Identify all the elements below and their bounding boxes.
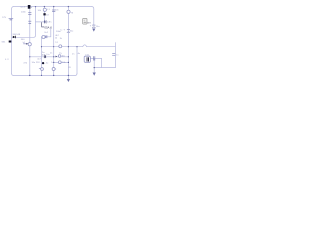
transistor circle C8 at (42,69): [41, 68, 44, 71]
base dash left of C8: [39, 67, 41, 69]
wire bottom rail: [14, 74, 76, 76]
svg-text:1N4148: 1N4148: [12, 34, 20, 36]
label leader line: [42, 22, 45, 27]
electrolytic cap on x=93.8 at y=26: [92, 25, 95, 28]
diode B8 on y=56.8: [56, 56, 58, 58]
dark blob B4 on x=44.4 at y=14.3: [43, 13, 45, 15]
svg-text:100n: 100n: [21, 11, 27, 13]
wire column x=101.6: [101, 59, 103, 68]
wire box output y=58.1: [90, 58, 101, 60]
transistor circle C6 at (61,56): [58, 55, 61, 58]
labels (faint): [2, 7, 119, 69]
capacitor on x=29.8 at y=13: [28, 13, 31, 15]
wire right rail upper: [93, 9, 95, 25]
svg-text:an: an: [87, 20, 91, 24]
junction dots bottom rail: [29, 75, 69, 76]
wire branch y=21.9: [36, 21, 45, 23]
speaker box LS1: [84, 56, 90, 62]
wire column x=29.8: [29, 7, 31, 76]
svg-text:12V: 12V: [2, 17, 6, 19]
svg-text:100n: 100n: [56, 31, 62, 33]
wire column x=35.5: [34, 7, 36, 38]
transistor circle C4 at (43.8,36.6) with cap: [42, 35, 45, 38]
wire top-left corner: [12, 7, 14, 9]
trimmer component on x=29.8 at y=22: [28, 21, 31, 24]
wire branch y=56.8: [30, 56, 69, 58]
battery B1 plates on left rail: [9, 19, 14, 20]
wire ground stub x=68.4: [67, 75, 69, 79]
transistor circle C3 at (30,43.6): [28, 43, 31, 46]
grey broken-image placeholder icon: [83, 18, 91, 24]
wire column x=50.8 stub: [50, 29, 52, 37]
wire long node y=46.7: [42, 46, 116, 48]
wire bottom-right corner up: [75, 74, 77, 76]
ground arrow at x=94.2 y=76.8: [93, 73, 96, 76]
wire column x=44.4 upper: [43, 7, 45, 22]
wire return y=67.6: [94, 67, 116, 69]
svg-text:6c8n: 6c8n: [47, 22, 53, 24]
svg-text:1n: 1n: [116, 55, 118, 57]
transistor circle C9 at (53.6,69): [52, 68, 55, 71]
diode D1 on y=37.3 branch: [13, 36, 16, 39]
stub with arrow into C3: [23, 43, 28, 45]
wire left rail: [11, 9, 13, 74]
component dark blob on x=29.8 top: [28, 5, 31, 9]
series cap on box wire at x=94.2: [94, 56, 95, 60]
wire top rail: [14, 6, 92, 8]
wire base branch y=37.3: [12, 36, 34, 38]
polarized cap B7 at (46.5,21.9): [45, 20, 47, 23]
wire column x=41: [41, 37, 43, 76]
big junction dot at (41,63.3): [42, 62, 44, 64]
wire ground stub x=94.2: [93, 59, 95, 73]
svg-text:2n: 2n: [50, 53, 52, 55]
wire top-right corner: [92, 7, 94, 9]
junction dot x=29.8 y=56.8: [29, 56, 30, 57]
wire bottom-left corner: [12, 74, 14, 76]
svg-text:0V: 0V: [5, 59, 10, 61]
wire branch y=62.4: [54, 61, 69, 63]
base dash right of C9: [55, 68, 56, 70]
svg-text:sw_1: sw_1: [20, 7, 26, 9]
svg-text:25V: 25V: [36, 62, 40, 64]
ground arrow at x=93.8 y=32: [92, 29, 95, 32]
electrolytic cap on x=68.4 at y=30.5: [67, 30, 70, 33]
ground arrow at x=68.4 y=81.8: [67, 79, 70, 82]
polarized cap on y=56.8 at x=44.8: [44, 55, 46, 58]
junction dots middle: [41, 21, 95, 68]
wire column x=68.4: [67, 7, 69, 76]
transistor circle C2 at (68.5,11.8): [67, 10, 70, 13]
wire hop-over bump: [83, 45, 87, 47]
wire column x=77: [76, 47, 78, 74]
junction dots top rail: [35, 6, 69, 7]
svg-text:05A K: 05A K: [45, 25, 53, 29]
wire antenna column x=115.4: [114, 43, 116, 68]
dark blob on left rail at y=41.5: [9, 41, 12, 43]
transistor circle C7 at (60.8,62.4): [58, 61, 61, 64]
transistor circle C5 at (60.3,46.3): [59, 45, 62, 48]
coil circle C1 at (44.8,9.8): [43, 8, 46, 11]
capacitor plates on x=53.7 at y=10.6: [52, 10, 55, 12]
wire column x=53.7: [53, 7, 55, 76]
earphone cap left of x=115.4: [112, 53, 115, 55]
wire branch y=36.3: [42, 36, 51, 38]
